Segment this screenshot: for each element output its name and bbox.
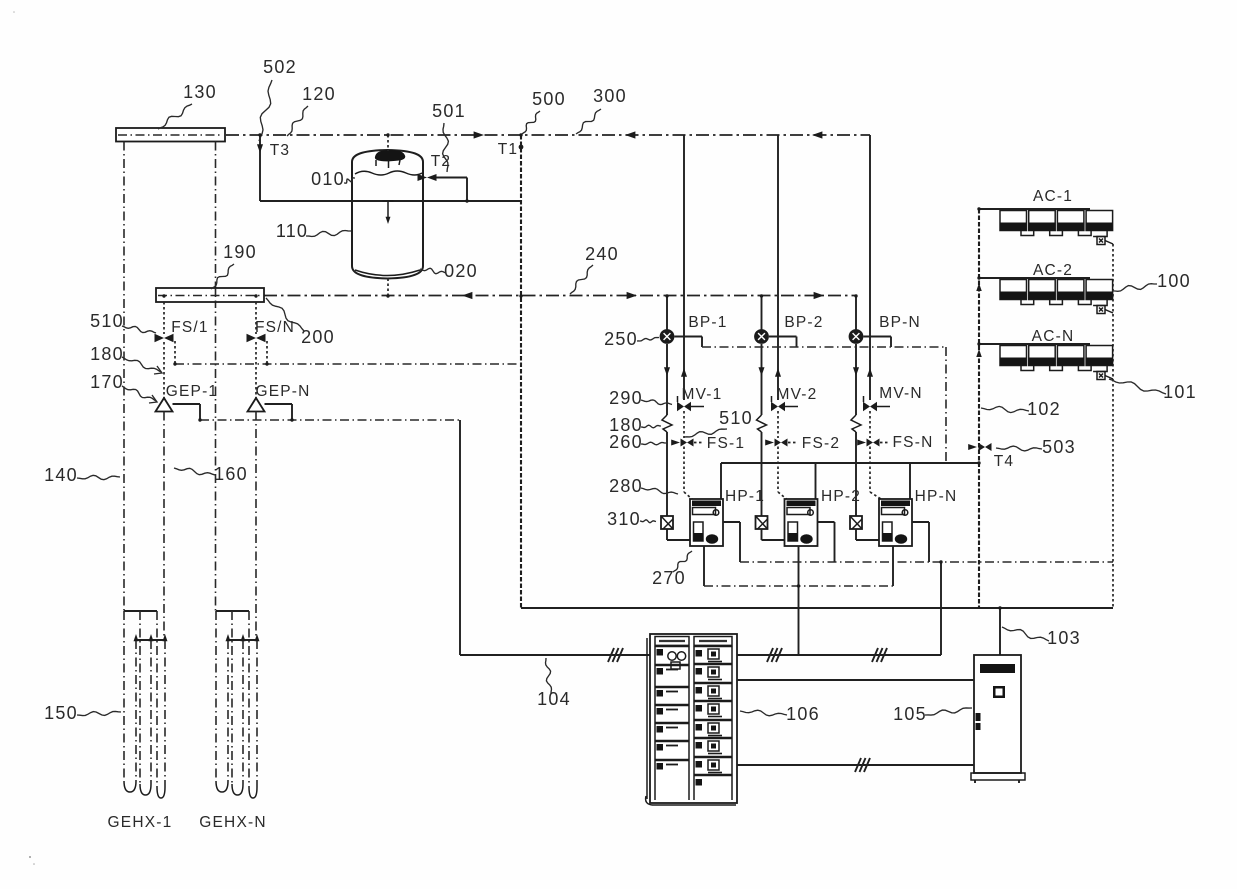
svg-text:501: 501: [432, 101, 466, 121]
label 180: [90, 344, 124, 364]
svg-text:FS/1: FS/1: [171, 319, 209, 336]
pump BP-2: [754, 329, 769, 344]
leader 260: [641, 442, 666, 445]
wire: pipe y=201 tank cross line: [260, 200, 521, 202]
label 010: [311, 169, 345, 189]
label 110: [276, 221, 308, 241]
wire: AC supply riser 102: [976, 209, 982, 608]
wire: branch N supply drop from 240 header: [855, 296, 857, 330]
wire: branch N FS down to HP-N top: [870, 447, 881, 500]
wire: top header pipe 500/300: [226, 134, 870, 136]
wire: branch 2 supply drop from 240 header: [761, 296, 763, 330]
svg-text:020: 020: [444, 261, 478, 281]
wire: AC return riser down right side: [1112, 244, 1114, 608]
manifold bar 190: [156, 288, 264, 302]
leader 101: [1109, 379, 1166, 394]
wire: ground loop supply drop to GEHX-N: [215, 142, 217, 612]
flow switch FS-N with arrow: [857, 439, 890, 447]
wire: riser x=941 from 562 run to control wiring: [940, 562, 942, 655]
flow switch FS-2 with arrow: [765, 439, 798, 447]
leader 190: [211, 264, 234, 289]
svg-text:103: 103: [1047, 628, 1081, 648]
leader 106: [740, 710, 787, 716]
wire: branch N return riser: [867, 135, 873, 400]
wire: HP-N top riser to T4 header: [909, 463, 911, 499]
overlay dash through bar 190: [215, 288, 217, 302]
wire: branch 2 MV to FS dotted: [777, 411, 779, 438]
wire: branch 502 down pipe with T3 arrow: [257, 135, 263, 201]
svg-text:300: 300: [593, 86, 627, 106]
wire: branch 1 MV to FS dotted: [683, 411, 685, 438]
label GEHX-1: [108, 814, 173, 831]
tank inlet pipe from header: [387, 135, 389, 151]
svg-text:HP-1: HP-1: [725, 488, 765, 505]
label 150: [44, 703, 78, 723]
svg-text:FS-1: FS-1: [707, 435, 745, 452]
svg-text:310: 310: [607, 509, 641, 529]
svg-text:GEP-N: GEP-N: [255, 383, 310, 400]
leader 170: [122, 386, 156, 401]
label 250: [604, 329, 638, 349]
wire: branch 1 FS down to HP-1 top: [684, 447, 692, 500]
flow arrow left on 200 header: [462, 292, 472, 299]
label 260: [609, 432, 643, 452]
well GEHX-N U-tubes: [216, 611, 257, 798]
label MV-1: [682, 386, 723, 403]
label FS-1: [707, 435, 745, 452]
wire: 104 drop to control panel: [460, 420, 650, 662]
label HP-2: [821, 488, 861, 505]
pump GEP-1 triangle: [156, 398, 173, 640]
tank top relief blob 010: [375, 150, 405, 168]
svg-text:HP-2: HP-2: [821, 488, 861, 505]
leader 503: [996, 446, 1042, 451]
wire: ground loop supply drop from bar 130 (140): [123, 142, 125, 612]
wire: branch 2 return riser: [775, 135, 781, 400]
label BP-1: [688, 314, 727, 331]
wire: HP-1 right side exit: [723, 522, 740, 562]
svg-text:T4: T4: [994, 453, 1015, 470]
label 101: [1163, 382, 1197, 402]
svg-text:102: 102: [1027, 399, 1061, 419]
svg-text:GEHX-1: GEHX-1: [108, 814, 173, 831]
leader 510M: [684, 429, 727, 437]
leader 140: [77, 475, 120, 479]
wire: drop x=946 to T4 header: [945, 347, 947, 462]
label 280: [609, 476, 643, 496]
svg-text:BP-2: BP-2: [784, 314, 823, 331]
leader 180M: [641, 425, 661, 428]
wire: branch 2 FS down to HP-2 top: [778, 447, 787, 500]
wire: equipment room bottom run y=608: [521, 607, 1113, 609]
wire: HP-N bottom drop: [892, 546, 894, 586]
cabinet 105: [971, 655, 1025, 783]
label HP-1: [725, 488, 765, 505]
well GEHX-1 U-tubes: [124, 611, 165, 798]
wire: lower header pipe 200/240: [264, 295, 856, 297]
svg-text:190: 190: [223, 242, 257, 262]
valve MV-2 motorized: [771, 396, 798, 411]
leader 150: [77, 711, 121, 715]
label T3: [270, 142, 291, 159]
svg-text:BP-N: BP-N: [879, 314, 921, 331]
wire: branch 2 down pipe with flex 180 and arrow: [757, 344, 767, 516]
label 170: [90, 372, 124, 392]
manifold bar 130: [116, 128, 225, 142]
svg-text:FS/N: FS/N: [255, 319, 295, 336]
svg-text:270: 270: [652, 568, 686, 588]
svg-text:250: 250: [604, 329, 638, 349]
leader 270: [673, 551, 692, 572]
control panel 106: [646, 634, 737, 805]
svg-text:180: 180: [90, 344, 124, 364]
wire: HP-1 top riser to T4 header: [720, 463, 722, 499]
flow arrow right on 240 header at 824: [814, 292, 824, 299]
wire: 103 drop to cabinet 105: [999, 608, 1001, 655]
label BP-2: [784, 314, 823, 331]
label HP-N: [915, 488, 958, 505]
svg-text:500: 500: [532, 89, 566, 109]
wire: HP-2 top riser to T4 header: [815, 463, 817, 499]
label BP-N: [879, 314, 921, 331]
tank 110 body: [352, 150, 423, 279]
svg-text:106: 106: [786, 704, 820, 724]
label FS/1: [171, 319, 209, 336]
leader 130: [158, 104, 192, 129]
label GEHX-N: [199, 814, 266, 831]
wire: 106 to 105 lower: [737, 758, 974, 772]
svg-text:FS-2: FS-2: [802, 435, 840, 452]
wire: HP-2 bottom drop: [798, 546, 800, 655]
svg-text:200: 200: [301, 327, 335, 347]
label AC-2: [1033, 262, 1073, 279]
svg-text:290: 290: [609, 388, 643, 408]
leader 102: [981, 406, 1029, 412]
wire: 106 right control run: [737, 648, 941, 662]
leader 020: [420, 268, 446, 274]
wire: BP-1 control jog to y=347 run: [674, 337, 702, 348]
leader 105: [925, 708, 972, 715]
label 190: [223, 242, 257, 262]
svg-text:170: 170: [90, 372, 124, 392]
wire: suction header y=364: [175, 363, 521, 365]
svg-text:510: 510: [90, 311, 124, 331]
label 502: [263, 57, 297, 77]
wire: T1 vertical down pipe: [520, 135, 522, 608]
svg-text:120: 120: [302, 84, 336, 104]
svg-text:MV-N: MV-N: [879, 385, 923, 402]
wire: HP-N right side exit: [912, 522, 929, 562]
label 290: [609, 388, 643, 408]
wire: T2 loop to down pipe: [436, 178, 467, 202]
valve MV-N motorized: [863, 396, 890, 411]
label FS-2: [802, 435, 840, 452]
label 120: [302, 84, 336, 104]
label 100: [1157, 271, 1191, 291]
fan coil unit AC-1: [979, 209, 1113, 245]
label AC-N: [1032, 328, 1075, 345]
svg-text:AC-2: AC-2: [1033, 262, 1073, 279]
svg-text:BP-1: BP-1: [688, 314, 727, 331]
svg-text:160: 160: [214, 464, 248, 484]
svg-text:GEP-1: GEP-1: [166, 383, 219, 400]
leader 502: [259, 80, 272, 141]
leader 310: [640, 520, 656, 523]
leader 510L: [122, 326, 156, 333]
flow arrow right on header near 477: [474, 131, 484, 138]
wire: branch N into HP left side: [856, 529, 879, 540]
flow switch FS/N leg: [247, 302, 266, 398]
wire: branch 1 into HP left side: [667, 529, 690, 540]
wire: branch N down pipe with flex 180 and arrow: [851, 344, 861, 516]
leader 500: [522, 111, 540, 134]
svg-text:104: 104: [537, 689, 571, 709]
label 104: [537, 689, 571, 709]
label 510: [719, 408, 753, 428]
node T1 sensor dot: [519, 145, 524, 150]
svg-text:T2: T2: [431, 153, 452, 170]
label 140: [44, 465, 78, 485]
svg-text:101: 101: [1163, 382, 1197, 402]
wire: branch 1 return riser: [681, 135, 687, 400]
wire: T4 header: [721, 462, 979, 464]
svg-text:140: 140: [44, 465, 78, 485]
svg-text:MV-2: MV-2: [777, 386, 818, 403]
svg-text:HP-N: HP-N: [915, 488, 958, 505]
label FS/N: [255, 319, 295, 336]
label 200: [301, 327, 335, 347]
wire: HP right-side common run y=562: [740, 561, 1113, 563]
leader 240: [570, 265, 593, 294]
leader 104: [546, 658, 552, 694]
label GEP-N: [255, 383, 310, 400]
leader 200: [266, 298, 304, 331]
svg-text:502: 502: [263, 57, 297, 77]
svg-text:280: 280: [609, 476, 643, 496]
svg-text:105: 105: [893, 704, 927, 724]
label 103: [1047, 628, 1081, 648]
leader 501: [443, 123, 449, 172]
svg-text:130: 130: [183, 82, 217, 102]
well GEHX-1 supply manifold: [124, 611, 157, 787]
leader 160: [174, 468, 215, 475]
svg-text:503: 503: [1042, 437, 1076, 457]
heat pump HP-N unit: [879, 499, 912, 546]
svg-text:260: 260: [609, 432, 643, 452]
pump GEP leg branch to suction header: [174, 341, 176, 364]
leader 010: [344, 178, 355, 183]
valve 310 on branch N: [850, 516, 862, 529]
label T2: [431, 153, 452, 170]
tank bottom outlet pipe 020: [387, 279, 389, 297]
leader 120: [287, 106, 308, 136]
label 105: [893, 704, 927, 724]
svg-text:110: 110: [276, 221, 308, 241]
leader 300: [576, 109, 601, 134]
label 160: [214, 464, 248, 484]
page specks: [13, 11, 35, 865]
svg-text:510: 510: [719, 408, 753, 428]
svg-text:MV-1: MV-1: [682, 386, 723, 403]
valve MV-1 motorized: [677, 396, 704, 411]
svg-text:AC-N: AC-N: [1032, 328, 1075, 345]
label 106: [786, 704, 820, 724]
svg-text:240: 240: [585, 244, 619, 264]
flow arrow right on 240 header at 637: [627, 292, 637, 299]
label 130: [183, 82, 217, 102]
label 503: [1042, 437, 1076, 457]
label 270: [652, 568, 686, 588]
pump BP-1: [660, 329, 675, 344]
svg-text:AC-1: AC-1: [1033, 188, 1073, 205]
heat pump HP-2 unit: [785, 499, 818, 546]
leader 100: [1112, 284, 1157, 292]
svg-text:GEHX-N: GEHX-N: [199, 814, 266, 831]
label 020: [444, 261, 478, 281]
wire: branch 2 into HP left side: [762, 529, 785, 540]
svg-text:T1: T1: [498, 141, 519, 158]
tank water level line: [355, 171, 422, 175]
leader 280: [641, 488, 678, 494]
wire: HP-1 bottom drop: [703, 546, 705, 586]
leader 290: [641, 400, 672, 405]
wire: 106 to 105 upper: [737, 679, 974, 681]
tank internal thermometer arrow: [383, 201, 394, 224]
leader 250: [637, 338, 659, 342]
svg-text:100: 100: [1157, 271, 1191, 291]
svg-text:T3: T3: [270, 142, 291, 159]
valve 310 on branch 2: [756, 516, 768, 529]
label T4: [994, 453, 1015, 470]
svg-text:FS-N: FS-N: [893, 434, 934, 451]
well GEHX-N supply manifold: [216, 611, 249, 787]
label AC-1: [1033, 188, 1073, 205]
wire: HP bottom common run y=586: [704, 585, 893, 587]
svg-text:150: 150: [44, 703, 78, 723]
flow switch FS/1 leg: [155, 302, 174, 398]
flow arrow left on header at 653: [625, 131, 635, 138]
flow switch FS-1 with arrow: [671, 439, 704, 447]
label 300: [593, 86, 627, 106]
pump GEP-N triangle: [248, 398, 265, 640]
wire: branch 1 down pipe with flex 180 and arrow: [662, 344, 672, 516]
wire: HP-2 right side exit: [818, 522, 835, 562]
label 180: [609, 415, 643, 435]
leader 103: [1002, 627, 1049, 641]
wire: GEP electrical run 104: [173, 404, 461, 420]
wire: BP-2 control jog to y=347 run: [769, 337, 797, 348]
label MV-2: [777, 386, 818, 403]
sensor T4 bowtie on AC riser: [968, 443, 991, 451]
leader arrowheads 180/170: [149, 366, 162, 403]
flow arrow left on header at 812: [812, 131, 822, 138]
fan coil unit AC-2: [979, 278, 1113, 314]
label MV-N: [879, 385, 923, 402]
pump GEP leg branch to suction header: [266, 341, 268, 364]
pump BP-N: [849, 329, 864, 344]
wire: branch N MV to FS dotted: [869, 411, 871, 438]
wire: branch 1 supply drop from 240 header: [666, 296, 668, 330]
leader 180L: [122, 357, 161, 372]
well GEHX-1 return manifold: [134, 634, 168, 787]
label 102: [1027, 399, 1061, 419]
label GEP-1: [166, 383, 219, 400]
label FS-N: [893, 434, 934, 451]
wire: BP-N control jog to y=347 run: [863, 337, 891, 348]
label 310: [607, 509, 641, 529]
svg-text:010: 010: [311, 169, 345, 189]
sensor T2 bowtie on tank: [418, 174, 437, 181]
label 501: [432, 101, 466, 121]
fan coil unit AC-N: [979, 344, 1113, 380]
label 510: [90, 311, 124, 331]
heat pump HP-1 unit: [690, 499, 723, 546]
label 500: [532, 89, 566, 109]
label 240: [585, 244, 619, 264]
valve 310 on branch 1: [661, 516, 673, 529]
leader 110: [306, 231, 351, 237]
wire: BP common run y=347: [702, 346, 946, 348]
label T1: [498, 141, 519, 158]
well GEHX-N return manifold: [226, 634, 260, 787]
